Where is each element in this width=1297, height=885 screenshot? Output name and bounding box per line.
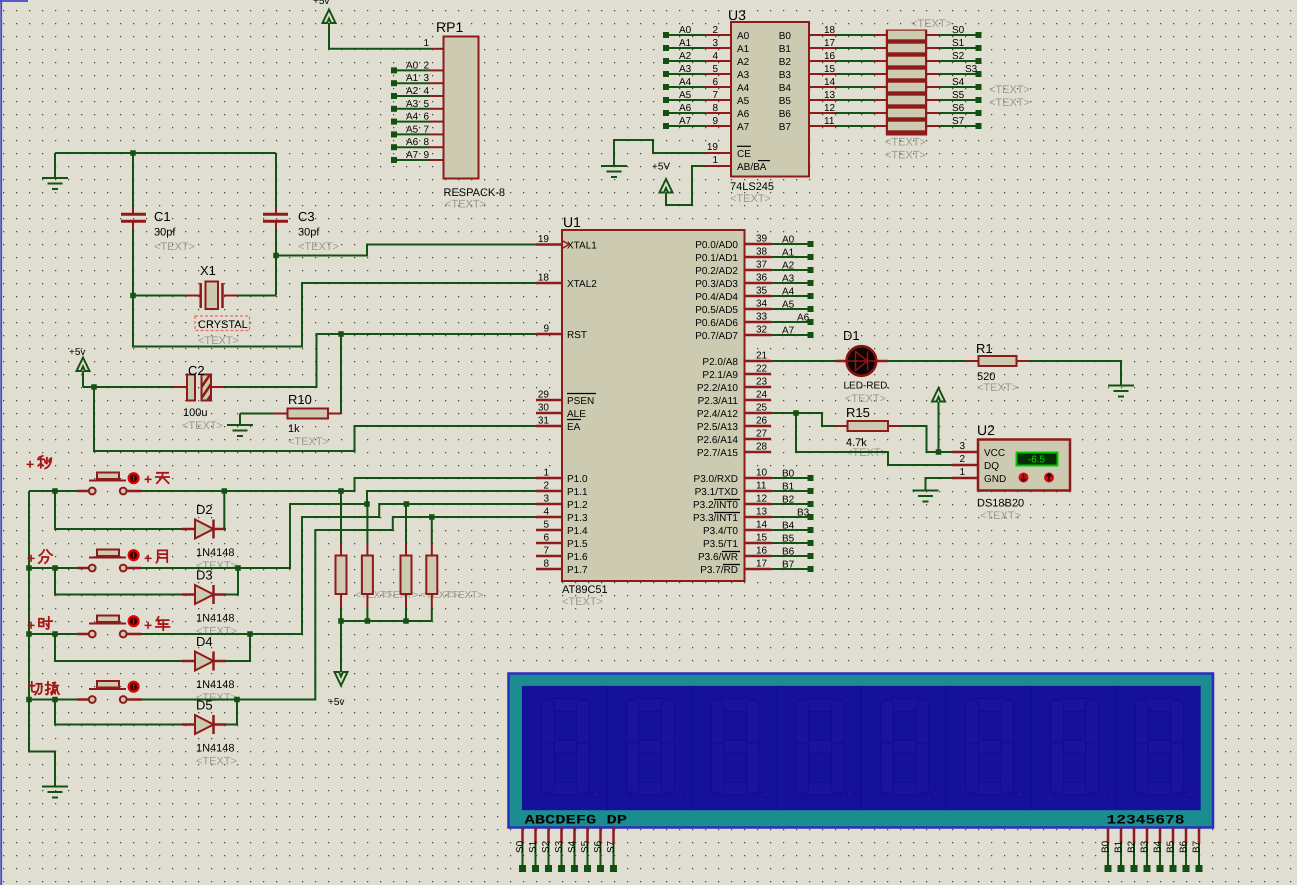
wire C1 top lead: [132, 153, 134, 213]
wire S1: [939, 47, 976, 49]
svg-text:A1: A1: [737, 44, 750, 55]
net label A0 (RP1): [406, 60, 419, 71]
svg-text:100u: 100u: [183, 407, 207, 419]
pin name U1 P2.6/A14: [697, 435, 739, 446]
svg-text:39: 39: [756, 234, 768, 245]
svg-text:+: +: [144, 617, 152, 633]
text U2 <TEXT>: [980, 510, 1021, 522]
display digit 3: [692, 686, 769, 810]
wire A0 to RP1 pin 2: [397, 69, 444, 71]
junction D2 cathode row1: [222, 488, 228, 494]
wire B5 (U1): [771, 542, 808, 544]
display pin S6 wire: [599, 828, 602, 866]
net label A3 (RP1): [406, 99, 419, 110]
node B6 terminal (display): [1183, 865, 1190, 872]
wire U3 B1 to resistor pack: [809, 47, 874, 49]
svg-text:A1: A1: [406, 73, 419, 84]
pin name U1 P0.7/AD7: [695, 331, 738, 342]
pin name U3 A2: [737, 57, 750, 68]
pin U1 9 RST stub: [536, 333, 562, 336]
svg-text:7: 7: [543, 546, 549, 557]
node S4 terminal (display): [571, 865, 578, 872]
svg-text:4: 4: [543, 507, 549, 518]
svg-text:R1: R1: [976, 341, 993, 356]
svg-text:B5: B5: [779, 96, 792, 107]
svg-text:A3: A3: [679, 64, 692, 75]
svg-text:LED-RED.: LED-RED.: [844, 381, 891, 392]
switch (+时/+年 row): [77, 616, 142, 638]
text pull-up resistor 1 <TEXT>: [355, 590, 392, 601]
svg-text:30pf: 30pf: [298, 227, 320, 239]
wire D2 anode: [55, 491, 182, 529]
net label A7 (U3): [679, 116, 692, 127]
pin U1 10 P3.0/RXD stub: [745, 477, 772, 480]
label 切换: [29, 682, 59, 695]
svg-text:2: 2: [423, 60, 429, 71]
wire A0 (U1): [771, 243, 808, 245]
svg-text:P3.1/TXD: P3.1/TXD: [695, 487, 738, 498]
svg-text:2: 2: [712, 25, 718, 36]
svg-text:C3: C3: [298, 209, 315, 224]
display pin S2 wire: [547, 828, 550, 866]
net label S2 (display): [541, 840, 552, 853]
pin number U1 24: [756, 390, 768, 401]
diode D4: [182, 652, 226, 671]
pin number U1 35: [756, 286, 768, 297]
node A7 terminal (U3): [663, 123, 669, 129]
pin number U1 12: [756, 494, 768, 505]
svg-text:9: 9: [423, 150, 429, 161]
net label A4 (RP1): [406, 112, 419, 123]
pin number U1 31: [538, 416, 550, 427]
svg-text:P2.3/A11: P2.3/A11: [698, 396, 739, 407]
wire S3: [939, 73, 976, 75]
label R15: [846, 405, 870, 420]
svg-text:A0: A0: [782, 235, 795, 246]
svg-text:P3.6/WR: P3.6/WR: [698, 552, 738, 563]
wire U3 B6 to resistor pack: [809, 112, 874, 114]
label +年: [144, 617, 169, 633]
svg-text:32: 32: [756, 325, 768, 336]
svg-text:8: 8: [543, 559, 549, 570]
svg-text:P2.1/A9: P2.1/A9: [702, 370, 738, 381]
pin U1 24 P2.3/A11 stub: [745, 399, 772, 402]
svg-text:A7: A7: [406, 150, 419, 161]
svg-text:6: 6: [712, 77, 718, 88]
net label S4: [952, 77, 965, 88]
svg-text:33: 33: [756, 312, 768, 323]
net label B6 (U1): [782, 547, 795, 558]
pin name U1 P3.2/INT0: [693, 500, 740, 512]
pin U1 1 P1.0 stub: [536, 477, 562, 480]
resistor R10: [240, 409, 341, 419]
value C2 100u: [183, 407, 207, 419]
pull-up resistor 3: [401, 504, 412, 621]
svg-text:<TEXT>: <TEXT>: [288, 436, 329, 448]
svg-text:5: 5: [423, 99, 429, 110]
svg-text:A3: A3: [737, 70, 750, 81]
wire B3 (U1): [771, 516, 808, 518]
svg-text:VCC: VCC: [984, 448, 1005, 459]
wire U3 B5 to resistor pack: [809, 99, 874, 101]
svg-text:S2: S2: [952, 51, 965, 62]
pin number U1 28: [756, 442, 768, 453]
sheet border (left edge): [0, 0, 28, 885]
svg-text:S1: S1: [952, 38, 965, 49]
net label A2 (U3): [679, 51, 692, 62]
wire A6 to RP1 pin 8: [397, 146, 444, 148]
pin U1 30 ALE stub: [536, 412, 562, 415]
net label B7 (U1): [782, 560, 795, 571]
svg-text:P0.5/AD5: P0.5/AD5: [695, 305, 738, 316]
junction top rail at C1: [130, 150, 136, 156]
node A6 terminal (U1): [808, 319, 814, 325]
wire A3 to RP1 pin 5: [397, 108, 444, 110]
svg-text:P2.2/A10: P2.2/A10: [697, 383, 739, 394]
wire row4 to P1.3: [142, 517, 537, 700]
svg-text:A2: A2: [406, 86, 419, 97]
resistor ladder body: [886, 30, 927, 136]
wire D4 cathode riser: [226, 634, 250, 661]
resistor pack RP1 body: [444, 37, 479, 179]
wire GND to ground: [926, 478, 953, 491]
display digit 1: [541, 699, 598, 798]
pin number U1 17: [756, 559, 768, 570]
pin U1 7 P1.6 stub: [536, 555, 562, 558]
svg-text:<TEXT>: <TEXT>: [446, 590, 483, 601]
svg-text:5: 5: [543, 520, 549, 531]
svg-text:25: 25: [756, 403, 768, 414]
svg-text:7: 7: [423, 124, 429, 135]
svg-text:1N4148: 1N4148: [196, 743, 235, 755]
node S3 terminal: [976, 71, 982, 77]
wire row3 to P1.2: [142, 504, 537, 634]
junction rail r3: [403, 618, 409, 624]
svg-text:A6: A6: [797, 313, 810, 324]
node S1 terminal (display): [532, 865, 539, 872]
pin name U1 XTAL1: [567, 241, 597, 252]
pin number U3 19: [707, 142, 719, 153]
node A7 terminal (U1): [808, 332, 814, 338]
net label B1 (display): [1114, 840, 1125, 853]
svg-text:C1: C1: [154, 209, 171, 224]
pin number U1 37: [756, 260, 768, 271]
wire C2 to RST: [224, 334, 536, 387]
node A6 terminal (U3): [663, 110, 669, 116]
node A2 terminal (U3): [663, 58, 669, 64]
node A7 terminal (RP1): [391, 157, 397, 163]
net label S0: [952, 25, 965, 36]
svg-text:RST: RST: [567, 330, 587, 341]
pin number U1 9: [543, 324, 549, 335]
resistor ladder element 5: [874, 96, 939, 105]
display pin B5 wire: [1172, 828, 1175, 866]
pin U1 16 P3.6/WR stub: [745, 555, 772, 558]
pin name U1 P0.3/AD3: [695, 279, 738, 290]
pin name U1 P0.1/AD1: [695, 253, 738, 264]
svg-text:8: 8: [712, 103, 718, 114]
text C3 <TEXT>: [298, 241, 339, 253]
wire P2.0 to D1: [771, 360, 836, 362]
text R15 <TEXT>: [846, 447, 887, 459]
wire A4 (U1): [771, 295, 808, 297]
svg-text:B0: B0: [1101, 840, 1112, 853]
capacitor C3: [263, 214, 288, 221]
svg-text:16: 16: [756, 546, 768, 557]
svg-text:1: 1: [712, 155, 718, 166]
node A4 terminal (RP1): [391, 119, 397, 125]
net label B2 (display): [1127, 840, 1138, 853]
text pull-up resistor 2 <TEXT>: [381, 590, 418, 601]
resistor ladder element 7: [874, 122, 939, 131]
pin number RP1 5: [423, 99, 429, 110]
pin U1 33 P0.6/AD6 stub: [745, 321, 772, 324]
text D5 <TEXT>: [196, 756, 237, 768]
display segment legend ABCDEFG DP: [525, 813, 628, 828]
node S3 terminal (display): [558, 865, 565, 872]
wire B4 (U1): [771, 529, 808, 531]
display digit 2: [607, 686, 684, 810]
pin number U1 13: [756, 507, 768, 518]
text pull-up resistor 4 <TEXT>: [446, 590, 483, 601]
wire S0: [939, 34, 976, 36]
svg-text:3: 3: [543, 494, 549, 505]
svg-text:U2: U2: [977, 422, 995, 438]
wire C3 top lead: [275, 153, 277, 213]
svg-text:<TEXT>: <TEXT>: [911, 18, 952, 30]
label R10: [288, 392, 312, 407]
pin number RP1 9: [423, 150, 429, 161]
pin number U1 11: [756, 481, 767, 492]
label +月: [144, 550, 167, 566]
text D1 <TEXT>: [845, 393, 886, 405]
junction D3 cathode row2: [235, 565, 241, 571]
pin name U3 A6: [737, 109, 750, 120]
value C3 30pf: [298, 227, 320, 239]
pin number U1 38: [756, 247, 768, 258]
text pull-up resistor 3 <TEXT>: [420, 590, 457, 601]
text resistor ladder <TEXT> (top): [911, 18, 952, 30]
svg-text:EA: EA: [567, 422, 581, 433]
net label S6: [952, 103, 965, 114]
ground: [601, 166, 627, 177]
pin number U1 16: [756, 546, 768, 557]
pin name U1 P2.0/A8: [702, 357, 738, 368]
pin number U3 13: [824, 90, 836, 101]
node B6 terminal (U1): [808, 553, 814, 559]
wire U3 B2 to resistor pack: [809, 60, 874, 62]
net label B2 (U1): [782, 495, 795, 506]
svg-text:+5V: +5V: [652, 162, 670, 173]
wire C1 bottom lead: [132, 222, 134, 296]
pin number U1 27: [756, 429, 768, 440]
svg-text:B5: B5: [1166, 840, 1177, 853]
node A1 terminal (RP1): [391, 80, 397, 86]
net label B6 (display): [1179, 840, 1190, 853]
pin U1 39 P0.0/AD0 stub: [745, 243, 772, 246]
net label A3 (U1): [782, 274, 795, 285]
svg-text:S1: S1: [528, 840, 539, 853]
display pin S3 wire: [560, 828, 563, 866]
pin U1 18 XTAL2 stub: [536, 282, 562, 285]
wire A6 to U3 pin 8: [669, 112, 731, 114]
pin number RP1 3: [423, 73, 429, 84]
pin U1 38 P0.1/AD1 stub: [745, 256, 772, 259]
svg-text:B1: B1: [1114, 840, 1125, 853]
net label B7 (display): [1192, 840, 1203, 853]
node B1 terminal (U1): [808, 488, 814, 494]
svg-text:S0: S0: [952, 25, 965, 36]
node A2 terminal (U1): [808, 267, 814, 273]
svg-text:B3: B3: [779, 70, 792, 81]
net label A7 (U1): [782, 326, 795, 337]
label D2: [196, 502, 213, 517]
pin name U3 B1: [779, 44, 792, 55]
pin number RP1 2: [423, 60, 429, 71]
svg-text:13: 13: [756, 507, 768, 518]
net label S6 (display): [593, 840, 604, 853]
svg-text:+: +: [26, 456, 34, 472]
pin number U1 14: [756, 520, 768, 531]
wire P2.4 node: [771, 412, 796, 414]
wire U3 B0 to resistor pack: [809, 34, 874, 36]
display pin B7 wire: [1198, 828, 1201, 866]
svg-text:S4: S4: [567, 840, 578, 853]
pin number U3 4: [712, 51, 718, 62]
display pin B0 wire: [1107, 828, 1110, 866]
wire row3 left: [29, 633, 77, 635]
junction rail r1: [338, 618, 344, 624]
label U1: [563, 214, 581, 230]
svg-text:A4: A4: [737, 83, 750, 94]
pin name U1 P2.7/A15: [697, 448, 739, 459]
value R1 520: [977, 371, 995, 383]
wire A2 to RP1 pin 4: [397, 95, 444, 97]
label D3: [196, 568, 213, 583]
node B1 terminal (display): [1118, 865, 1125, 872]
svg-text:P3.2/INT0: P3.2/INT0: [693, 500, 738, 511]
pin name U3 B7: [779, 122, 792, 133]
svg-text:9: 9: [712, 116, 718, 127]
wire A6 (U1): [771, 321, 808, 323]
junction diode riser row3: [52, 631, 58, 637]
label +天: [144, 471, 169, 487]
wire B0 (U1): [771, 477, 808, 479]
svg-text:+: +: [27, 617, 35, 633]
pin name U1 P2.5/A13: [697, 422, 739, 433]
text R10 <TEXT>: [288, 436, 329, 448]
junction +5v/EA node: [91, 384, 97, 390]
value D2 1N4148: [196, 547, 235, 559]
pin number U1 10: [756, 468, 768, 479]
pin name U3 A0: [737, 31, 750, 42]
pin number U1 23: [756, 377, 768, 388]
wire R15 to +5v/VCC: [901, 426, 936, 452]
net label S0 (display): [515, 840, 526, 853]
pin U2 2 DQ: [952, 454, 999, 472]
node B2 terminal (U1): [808, 501, 814, 507]
U2 temperature display: [1017, 453, 1058, 466]
pin U1 36 P0.3/AD3 stub: [745, 282, 772, 285]
junction C1/crystal node: [130, 293, 136, 299]
net label A6 (U3): [679, 103, 692, 114]
wire S6: [939, 112, 976, 114]
svg-text:15: 15: [756, 533, 768, 544]
wire A5 to RP1 pin 7: [397, 133, 444, 135]
node S0 terminal: [976, 32, 982, 38]
pin number U1 8: [543, 559, 549, 570]
junction D4 cathode row3: [247, 631, 253, 637]
svg-text:P3.4/T0: P3.4/T0: [703, 526, 738, 537]
svg-text:B2: B2: [782, 495, 795, 506]
svg-text:B7: B7: [1192, 840, 1203, 853]
svg-text:6: 6: [543, 533, 549, 544]
pin name U1 P2.1/A9: [702, 370, 738, 381]
svg-text:B1: B1: [779, 44, 792, 55]
pin number U3 7: [712, 90, 718, 101]
node S4 terminal: [976, 84, 982, 90]
svg-text:<TEXT>: <TEXT>: [196, 756, 237, 768]
node A3 terminal (U3): [663, 71, 669, 77]
svg-text:S4: S4: [952, 77, 965, 88]
svg-text:P1.0: P1.0: [567, 474, 588, 485]
ground: [1108, 386, 1134, 397]
wire ground drop left: [54, 153, 56, 178]
label D4: [196, 634, 213, 649]
node A5 terminal (U3): [663, 97, 669, 103]
svg-text:P2.4/A12: P2.4/A12: [697, 409, 739, 420]
pin name U1 P0.0/AD0: [695, 240, 738, 251]
svg-text:S6: S6: [952, 103, 965, 114]
svg-text:B0: B0: [782, 469, 795, 480]
svg-text:B7: B7: [782, 560, 795, 571]
wire A1 to U3 pin 3: [669, 47, 731, 49]
svg-text:17: 17: [756, 559, 768, 570]
svg-text:7: 7: [712, 90, 718, 101]
power +5v terminal (top): [313, 0, 336, 23]
display digit legend 12345678: [1107, 813, 1185, 828]
pin U1 25 P2.4/A12 stub: [745, 412, 772, 415]
svg-text:A0: A0: [679, 25, 692, 36]
net label A4 (U3): [679, 77, 692, 88]
svg-text:12: 12: [756, 494, 768, 505]
resistor ladder element 4: [874, 83, 939, 92]
node S2 terminal (display): [545, 865, 552, 872]
svg-text:A7: A7: [679, 116, 692, 127]
wire +5V to U3 pin1: [666, 166, 731, 205]
wire r2 top to P1.1: [367, 491, 536, 504]
pin number U3 2: [712, 25, 718, 36]
pin name U3 B6: [779, 109, 792, 120]
pin name U1 P3.5/T1: [703, 539, 738, 550]
pin U1 6 P1.5 stub: [536, 542, 562, 545]
svg-text:DS18B20: DS18B20: [977, 498, 1024, 510]
pin U1 35 P0.4/AD4 stub: [745, 295, 772, 298]
junction D5 cathode row4: [234, 697, 240, 703]
svg-text:3: 3: [959, 441, 965, 452]
svg-text:ALE: ALE: [567, 409, 586, 420]
net label B0 (display): [1101, 840, 1112, 853]
wire B1 (U1): [771, 490, 808, 492]
pin name U1 XTAL2: [567, 279, 597, 290]
pin number RP1 1: [423, 38, 429, 49]
svg-text:1: 1: [423, 38, 429, 49]
svg-text:B0: B0: [779, 31, 792, 42]
net label A1 (U1): [782, 248, 795, 259]
svg-text:S5: S5: [952, 90, 965, 101]
pin name U1 P2.2/A10: [697, 383, 739, 394]
pin name U1 P0.4/AD4: [695, 292, 738, 303]
